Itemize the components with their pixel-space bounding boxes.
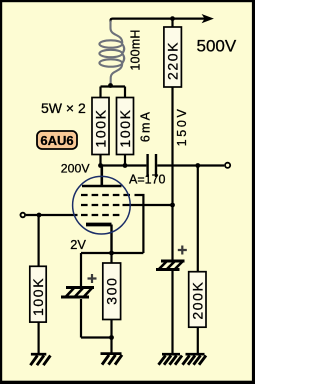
svg-text:6mA: 6mA — [138, 110, 152, 142]
svg-text:150V: 150V — [175, 106, 189, 146]
svg-text:100K: 100K — [117, 108, 133, 147]
svg-text:100K: 100K — [30, 277, 46, 316]
svg-text:100mH: 100mH — [129, 29, 143, 70]
svg-text:6AU6: 6AU6 — [40, 133, 73, 148]
svg-text:5W × 2: 5W × 2 — [41, 100, 86, 116]
svg-text:500V: 500V — [197, 37, 237, 56]
svg-text:A=170: A=170 — [129, 173, 166, 187]
svg-text:300: 300 — [104, 277, 120, 305]
svg-text:100K: 100K — [93, 108, 109, 147]
svg-text:220K: 220K — [165, 41, 181, 80]
svg-text:2V: 2V — [70, 237, 86, 252]
svg-text:200K: 200K — [189, 281, 205, 320]
svg-text:200V: 200V — [61, 162, 91, 176]
